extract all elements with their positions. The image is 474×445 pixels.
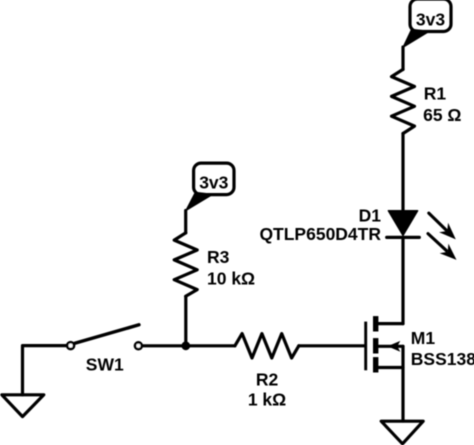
- resistor R3: [174, 233, 255, 296]
- svg-text:10 kΩ: 10 kΩ: [207, 268, 255, 288]
- LED D1 QTLP650D4TR: [259, 206, 456, 260]
- svg-text:QTLP650D4TR: QTLP650D4TR: [259, 224, 381, 244]
- svg-text:3v3: 3v3: [199, 173, 228, 193]
- svg-text:D1: D1: [359, 206, 382, 226]
- svg-text:M1: M1: [411, 328, 436, 348]
- svg-text:SW1: SW1: [86, 354, 124, 374]
- wire M1 source to ground: [401, 346, 404, 421]
- svg-text:BSS138: BSS138: [411, 349, 474, 369]
- wire R1 to D1: [401, 134, 404, 212]
- ground (left, under SW1): [2, 395, 44, 417]
- wire R3 top to flag: [184, 211, 187, 233]
- resistor R1: [392, 69, 462, 133]
- power flag 3v3 (top right): [403, 0, 451, 48]
- power flag 3v3 (above R3): [186, 163, 234, 211]
- svg-text:3v3: 3v3: [416, 9, 445, 29]
- wire junction up to R3: [184, 296, 187, 346]
- svg-text:65 Ω: 65 Ω: [423, 105, 461, 125]
- node junction (SW1/R3/R2): [181, 341, 190, 350]
- wire R2 to M1 gate: [299, 344, 365, 347]
- svg-text:R3: R3: [207, 247, 230, 267]
- wire SW1 to junction to R2: [143, 344, 235, 347]
- wire D1 to M1 drain: [401, 237, 404, 323]
- switch SW1: [67, 325, 142, 375]
- svg-text:1 kΩ: 1 kΩ: [248, 390, 286, 410]
- ground (right, under M1): [381, 421, 423, 444]
- wire flag to R1: [401, 47, 404, 69]
- svg-text:R2: R2: [256, 369, 279, 389]
- wire left ground to SW1: [23, 346, 66, 395]
- resistor R2: [235, 334, 299, 410]
- transistor M1 BSS138: [366, 316, 474, 372]
- svg-text:R1: R1: [424, 83, 447, 103]
